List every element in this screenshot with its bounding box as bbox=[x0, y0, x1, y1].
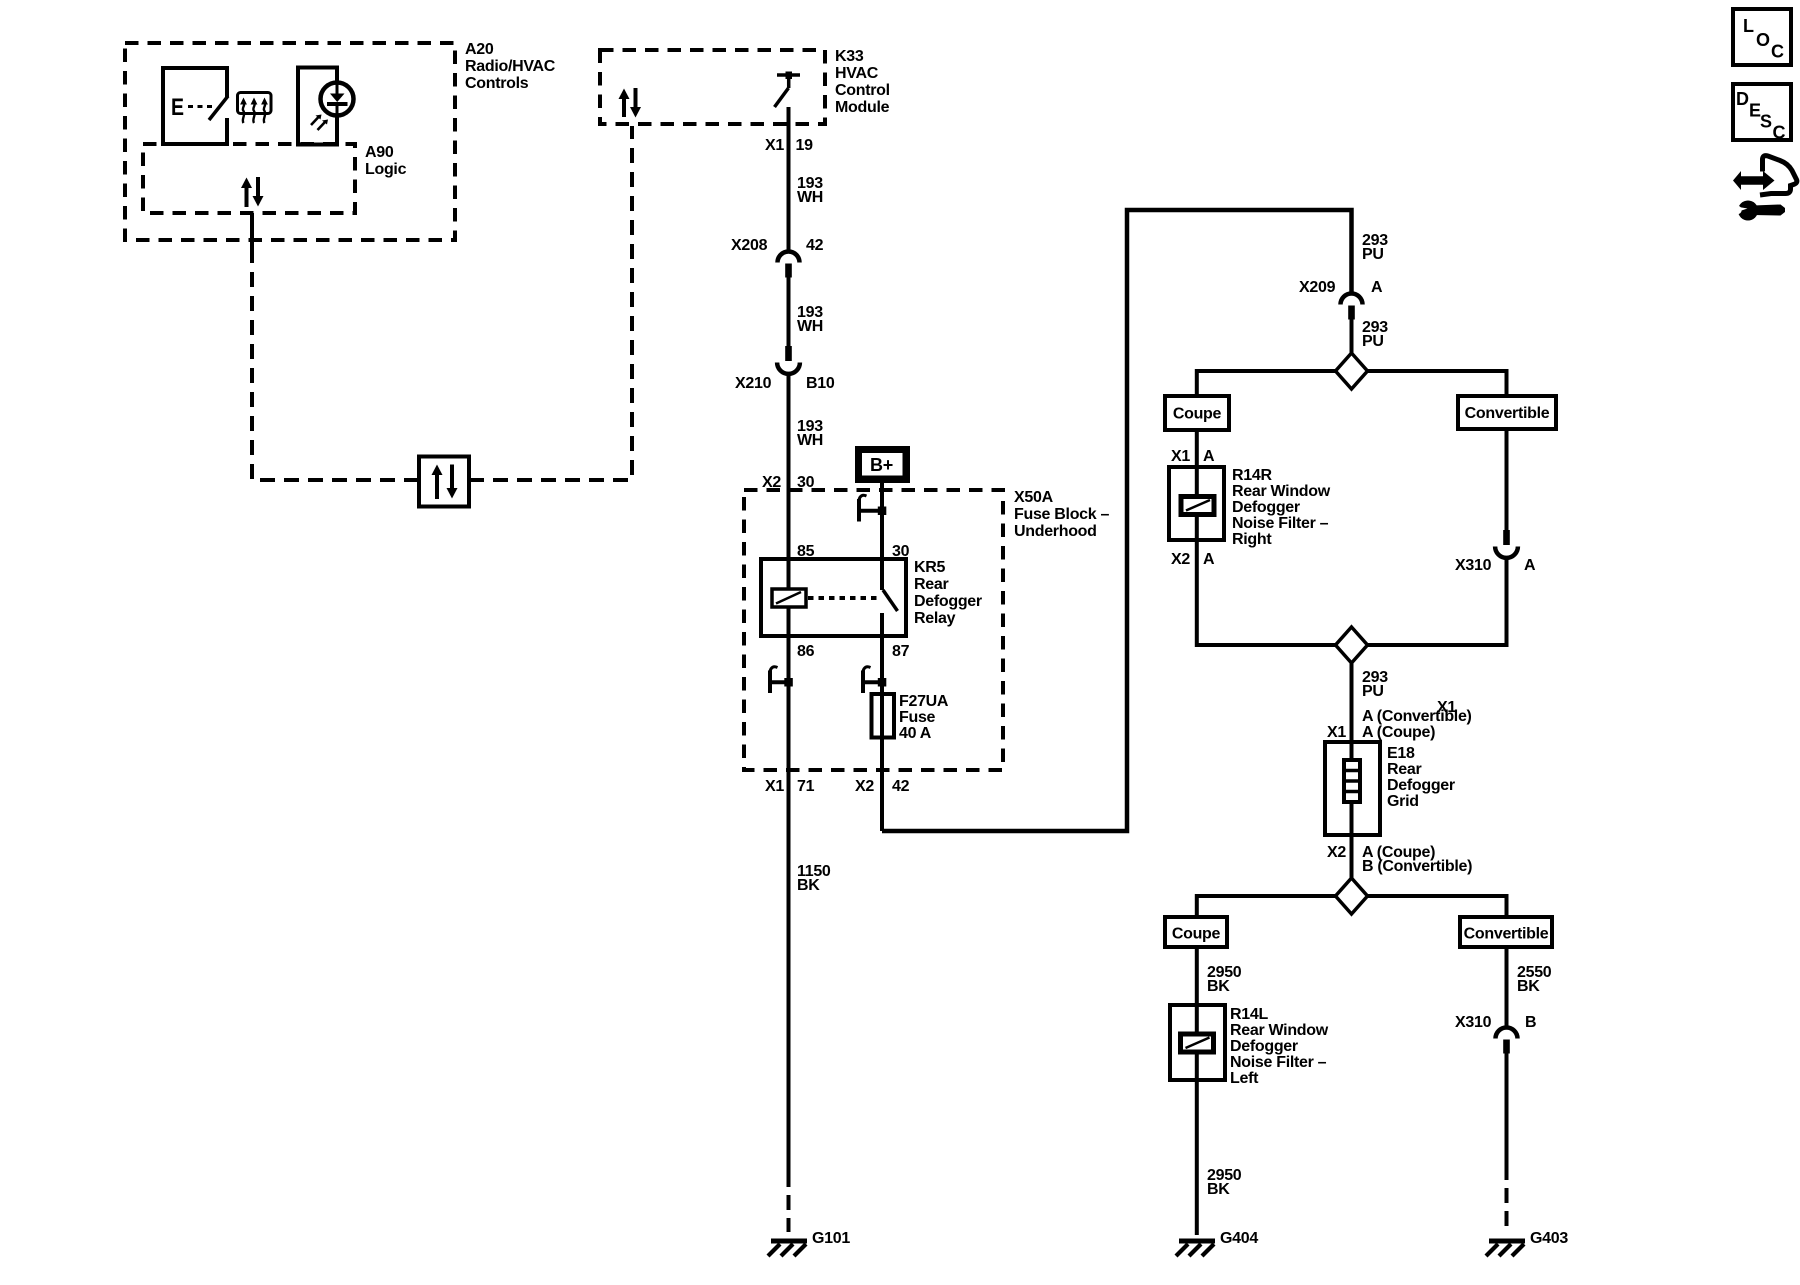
switch blade bbox=[209, 96, 228, 120]
wire 193 WH from K33 pin X1-19 bbox=[787, 107, 791, 252]
svg-text:Fuse: Fuse bbox=[899, 709, 936, 726]
svg-text:G101: G101 bbox=[812, 1230, 850, 1247]
svg-text:Noise Filter –: Noise Filter – bbox=[1232, 515, 1329, 532]
wire to Coupe branch (upper) bbox=[1197, 371, 1336, 396]
svg-text:R14R: R14R bbox=[1232, 467, 1272, 484]
svg-text:F27UA: F27UA bbox=[899, 693, 949, 710]
svg-text:WH: WH bbox=[797, 189, 823, 206]
svg-text:Convertible: Convertible bbox=[1464, 926, 1549, 943]
stray X1 label bbox=[1437, 699, 1456, 716]
in-line connector X310 pin A bbox=[1503, 530, 1510, 545]
wire 1150 BK label bbox=[797, 863, 831, 894]
wire to Convertible branch (lower) bbox=[1368, 896, 1507, 917]
filter R14R Rear Window Defogger Noise Filter - Right bbox=[1169, 467, 1224, 540]
photo sensor (light sensor) box bbox=[298, 68, 337, 145]
wire 193 WH from X210 to relay coil bbox=[787, 374, 791, 590]
wire Coupe to R14R pin X1 A bbox=[1195, 430, 1199, 467]
svg-text:X1: X1 bbox=[765, 778, 784, 795]
wire to Convertible branch (upper) bbox=[1368, 371, 1507, 396]
X50A label bbox=[1014, 489, 1110, 540]
svg-text:Relay: Relay bbox=[914, 610, 956, 627]
dashed ground lead G101 bbox=[787, 1172, 791, 1232]
dashed data wire down from A20 bbox=[252, 248, 417, 480]
wire 2550 BK Convertible to X310 bbox=[1505, 947, 1509, 1028]
K33 serial data arrows bbox=[622, 97, 626, 117]
diagnostic icon: wrench bbox=[1738, 201, 1758, 221]
dashed ground lead G403 bbox=[1505, 1165, 1509, 1232]
svg-text:BK: BK bbox=[797, 877, 820, 894]
svg-text:Defogger: Defogger bbox=[1387, 777, 1455, 794]
svg-text:HVAC: HVAC bbox=[835, 65, 879, 82]
in-line connector X310 pin B bbox=[1496, 1028, 1518, 1039]
svg-text:A: A bbox=[1203, 551, 1215, 568]
svg-text:X210: X210 bbox=[735, 375, 772, 392]
photodiode circle bbox=[321, 83, 354, 116]
svg-text:Defogger: Defogger bbox=[1232, 499, 1300, 516]
svg-text:Rear: Rear bbox=[914, 576, 948, 593]
svg-text:K33: K33 bbox=[835, 48, 864, 65]
svg-text:B+: B+ bbox=[870, 455, 893, 475]
wire X310-B to ground bbox=[1505, 1054, 1509, 1166]
terminal crimp at pin 87 bbox=[861, 680, 884, 684]
svg-text:X208: X208 bbox=[731, 237, 768, 254]
svg-text:X1: X1 bbox=[765, 137, 784, 154]
svg-text:Grid: Grid bbox=[1387, 793, 1419, 810]
svg-text:A90: A90 bbox=[365, 144, 394, 161]
svg-text:Underhood: Underhood bbox=[1014, 523, 1097, 540]
grid E18 Rear Defogger Grid box bbox=[1325, 742, 1380, 835]
svg-text:X50A: X50A bbox=[1014, 489, 1054, 506]
KR5 label bbox=[914, 559, 982, 627]
pin X1 71 labels bbox=[765, 778, 815, 795]
svg-text:BK: BK bbox=[1517, 978, 1540, 995]
relay coil bbox=[772, 589, 806, 607]
merge diamond (mid) bbox=[1336, 627, 1368, 663]
svg-text:BK: BK bbox=[1207, 978, 1230, 995]
A90 label bbox=[365, 144, 407, 178]
svg-text:PU: PU bbox=[1362, 333, 1384, 350]
svg-text:85: 85 bbox=[797, 543, 815, 560]
terminal crimp at pin 86 bbox=[768, 680, 791, 684]
switch actuator dashed link with E label bbox=[188, 105, 212, 108]
svg-text:Noise Filter –: Noise Filter – bbox=[1230, 1054, 1327, 1071]
in-line connector X210 pin B10 bbox=[785, 346, 792, 361]
svg-text:X1: X1 bbox=[1327, 724, 1346, 741]
Coupe tag (upper) bbox=[1165, 396, 1229, 430]
svg-text:E: E bbox=[171, 94, 184, 121]
Convertible tag (upper) bbox=[1458, 396, 1556, 429]
wire 293 PU from X209 to splice diamond bbox=[1350, 319, 1354, 354]
svg-text:L: L bbox=[1743, 16, 1754, 36]
svg-text:X209: X209 bbox=[1299, 279, 1336, 296]
svg-text:X2: X2 bbox=[855, 778, 874, 795]
switch S (defogger request) inside A20 bbox=[163, 68, 227, 144]
svg-text:BK: BK bbox=[1207, 1181, 1230, 1198]
svg-text:Defogger: Defogger bbox=[914, 593, 982, 610]
svg-text:KR5: KR5 bbox=[914, 559, 946, 576]
svg-text:86: 86 bbox=[797, 643, 815, 660]
component box X50A Fuse Block - Underhood (dashed) bbox=[744, 490, 1003, 770]
relay KR5 Rear Defogger Relay box bbox=[761, 559, 906, 636]
svg-text:G404: G404 bbox=[1220, 1230, 1258, 1247]
svg-text:A: A bbox=[1203, 448, 1215, 465]
wire from pin 86 to ground bbox=[787, 636, 791, 1172]
pin X2 42 labels bbox=[855, 778, 910, 795]
component box K33 HVAC Control Module (dashed) bbox=[600, 50, 825, 124]
wire pin 87 to fuse bbox=[880, 636, 884, 831]
in-line connector X208 pin 42 bbox=[778, 252, 800, 263]
svg-text:X1: X1 bbox=[1171, 448, 1190, 465]
pin X1 A (Coupe) labels bbox=[1327, 724, 1435, 741]
diagnostic icon: outlined arrow bbox=[1760, 156, 1797, 195]
svg-text:87: 87 bbox=[892, 643, 910, 660]
svg-text:B (Convertible): B (Convertible) bbox=[1362, 858, 1472, 875]
svg-text:E18: E18 bbox=[1387, 745, 1415, 762]
svg-text:Rear Window: Rear Window bbox=[1230, 1022, 1329, 1039]
branch diamond (bottom) bbox=[1336, 878, 1368, 914]
svg-text:B: B bbox=[1525, 1014, 1536, 1031]
svg-text:Radio/HVAC: Radio/HVAC bbox=[465, 58, 556, 75]
svg-text:X310: X310 bbox=[1455, 557, 1492, 574]
svg-text:Controls: Controls bbox=[465, 75, 529, 92]
Coupe tag (lower) bbox=[1165, 917, 1227, 947]
filter R14L Rear Window Defogger Noise Filter - Left bbox=[1170, 1005, 1225, 1080]
K33 internal driver switch bbox=[777, 73, 800, 77]
svg-text:40 A: 40 A bbox=[899, 725, 932, 742]
dashed data wire from gateway to K33 bbox=[469, 126, 632, 480]
relay contact (normally open) bbox=[880, 559, 884, 590]
svg-text:X2: X2 bbox=[1171, 551, 1190, 568]
component box A20 Radio/HVAC Controls (dashed) bbox=[125, 43, 455, 240]
component box A90 Logic (dashed) bbox=[143, 144, 355, 213]
photodiode symbol bbox=[336, 85, 339, 95]
light ray arrows bbox=[311, 117, 319, 126]
svg-text:Control: Control bbox=[835, 82, 890, 99]
A90 serial data arrows bbox=[245, 186, 249, 207]
svg-text:A (Coupe): A (Coupe) bbox=[1362, 724, 1435, 741]
wire Convertible to X310 bbox=[1505, 429, 1509, 530]
branch diamond (top) bbox=[1336, 353, 1368, 389]
pin X2 30 labels at fuse block bbox=[762, 474, 815, 491]
coil-contact dashed link bbox=[808, 596, 879, 600]
svg-text:Right: Right bbox=[1232, 531, 1272, 548]
heater element icon (rear defogger button) bbox=[238, 93, 272, 114]
svg-text:Rear: Rear bbox=[1387, 761, 1421, 778]
svg-text:Coupe: Coupe bbox=[1172, 926, 1221, 943]
svg-text:A20: A20 bbox=[465, 41, 494, 58]
svg-text:B10: B10 bbox=[806, 375, 835, 392]
svg-text:X2: X2 bbox=[1327, 844, 1346, 861]
E18 label bbox=[1387, 745, 1455, 810]
terminal crimp at fuse block (B+ side) bbox=[857, 509, 880, 513]
LOC legend box bbox=[1733, 9, 1791, 65]
svg-text:WH: WH bbox=[797, 432, 823, 449]
Convertible tag (lower) bbox=[1460, 917, 1552, 947]
serial data gateway box with arrows bbox=[419, 457, 469, 507]
svg-text:S: S bbox=[1760, 112, 1772, 132]
R14L coil bbox=[1181, 1034, 1214, 1052]
svg-text:Module: Module bbox=[835, 99, 890, 116]
svg-text:WH: WH bbox=[797, 318, 823, 335]
svg-text:Logic: Logic bbox=[365, 161, 407, 178]
svg-text:A: A bbox=[1371, 279, 1383, 296]
svg-text:Rear Window: Rear Window bbox=[1232, 483, 1331, 500]
fuse F27UA 40 A bbox=[872, 694, 895, 738]
grid element symbol bbox=[1344, 760, 1360, 802]
wire E18 X2 to lower branch diamond bbox=[1350, 835, 1354, 879]
wire from B+ to relay pin 30 bbox=[880, 483, 884, 590]
DESC legend box bbox=[1733, 84, 1791, 140]
diagnostic icon: double arrow bbox=[1733, 171, 1775, 190]
wire to Coupe branch (lower) bbox=[1197, 896, 1336, 917]
ground G404 bbox=[1179, 1239, 1215, 1244]
pin X2 A labels under R14R bbox=[1171, 551, 1215, 568]
svg-text:Left: Left bbox=[1230, 1070, 1259, 1087]
svg-text:R14L: R14L bbox=[1230, 1006, 1268, 1023]
wire X310-A down to lower diamond bbox=[1368, 558, 1507, 645]
svg-text:30: 30 bbox=[892, 543, 910, 560]
svg-text:O: O bbox=[1756, 30, 1770, 50]
wire 2950 BK Coupe to R14L bbox=[1195, 947, 1199, 1005]
svg-text:42: 42 bbox=[806, 237, 824, 254]
wire 293 PU to E18 bbox=[1350, 663, 1354, 742]
svg-text:PU: PU bbox=[1362, 683, 1384, 700]
svg-text:D: D bbox=[1736, 89, 1749, 109]
pin X1 19 labels bbox=[765, 137, 813, 154]
svg-text:71: 71 bbox=[797, 778, 815, 795]
svg-text:19: 19 bbox=[796, 137, 814, 154]
pin X2 A (Coupe) B (Convertible) labels bbox=[1327, 844, 1435, 861]
wire 193 WH between X208 and X210 bbox=[787, 277, 791, 346]
svg-text:Convertible: Convertible bbox=[1465, 405, 1550, 422]
pin 86 / 87 labels bbox=[797, 643, 910, 660]
svg-text:A: A bbox=[1524, 557, 1536, 574]
K33 label bbox=[835, 48, 890, 116]
svg-text:G403: G403 bbox=[1530, 1230, 1568, 1247]
svg-text:C: C bbox=[1771, 42, 1784, 62]
svg-text:A (Convertible): A (Convertible) bbox=[1362, 708, 1472, 725]
svg-text:Coupe: Coupe bbox=[1173, 406, 1222, 423]
ground G101 bbox=[771, 1239, 807, 1244]
pin 85 / 30 labels bbox=[797, 543, 910, 560]
R14R coil bbox=[1181, 497, 1214, 515]
battery feed B+ symbol bbox=[855, 446, 910, 483]
wire R14R down to lower diamond bbox=[1197, 540, 1336, 645]
ground G403 bbox=[1489, 1239, 1525, 1244]
svg-text:C: C bbox=[1773, 123, 1786, 143]
svg-text:X310: X310 bbox=[1455, 1014, 1492, 1031]
wire 2950 BK R14L to ground bbox=[1195, 1080, 1199, 1235]
wire 293 PU : fuse output runs right, up and across bbox=[882, 210, 1352, 831]
svg-text:42: 42 bbox=[892, 778, 910, 795]
svg-text:PU: PU bbox=[1362, 246, 1384, 263]
svg-text:Defogger: Defogger bbox=[1230, 1038, 1298, 1055]
in-line connector X209 pin A bbox=[1341, 294, 1363, 305]
svg-text:Fuse Block –: Fuse Block – bbox=[1014, 506, 1110, 523]
A20 label bbox=[465, 41, 556, 92]
wire from A90 Logic down (solid stub) bbox=[250, 213, 254, 248]
